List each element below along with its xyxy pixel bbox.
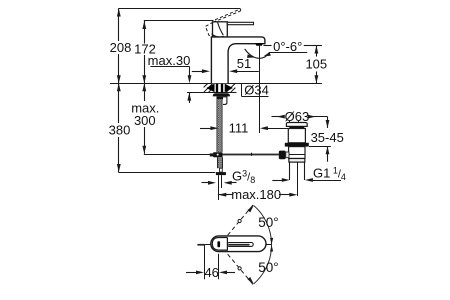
node dimension 35-45 bbox=[327, 117, 329, 128]
wire top extension line (spout max height) bbox=[118, 8, 240, 10]
plan hinge bar bbox=[217, 241, 220, 247]
wire collar extension line bbox=[309, 146, 331, 148]
arrowhead 35-45 bottom bbox=[326, 146, 330, 154]
wire supply pipe right edge bbox=[221, 175, 223, 188]
arrowhead angle arc right bbox=[264, 52, 271, 56]
arrowhead max300 bottom bbox=[142, 146, 146, 154]
handle raised position (dashed lever) bbox=[205, 9, 240, 36]
arrowhead max180 left bbox=[218, 193, 226, 197]
node dimension 111 bbox=[200, 128, 211, 130]
svg-text:208: 208 bbox=[110, 40, 132, 55]
drain bottom cap bbox=[289, 159, 305, 163]
wire 105 top tick bbox=[311, 45, 322, 47]
drain lower body bbox=[289, 147, 305, 159]
arrowhead 51 left (outside) bbox=[202, 69, 210, 73]
threaded shank (upper) bbox=[217, 99, 222, 152]
arrowhead 111 left bbox=[210, 126, 218, 130]
shank thread in deck hole bbox=[216, 83, 218, 92]
wire 46 extension right bbox=[218, 254, 220, 280]
angle swing arc at outlet bbox=[245, 49, 269, 58]
wire max.30 lower tail bbox=[189, 93, 191, 103]
flange shadow band bbox=[289, 127, 304, 129]
wire plan centerline right bbox=[254, 244, 273, 246]
svg-text:Ø34: Ø34 bbox=[244, 82, 269, 97]
svg-text:50°: 50° bbox=[258, 215, 278, 230]
arrowhead 105 bottom bbox=[315, 75, 319, 83]
svg-text:50°: 50° bbox=[258, 260, 278, 275]
aerator (spout outlet) bbox=[255, 43, 263, 46]
wire 380 bottom extension line bbox=[118, 172, 215, 174]
arrowhead max180 right bbox=[289, 193, 297, 197]
wire plan centerline left stub (rod) bbox=[197, 244, 204, 246]
arrowhead 208 bottom bbox=[117, 75, 121, 83]
horizontal pop-up rod bbox=[223, 154, 279, 156]
node label G3/8 with fitting diameter arrows bbox=[202, 182, 209, 184]
wire stream / outlet extension line bbox=[259, 46, 261, 133]
threaded shank (lower) bbox=[218, 157, 223, 168]
G3/8 supply fitting nut bbox=[216, 172, 226, 175]
handle raised position (dashed block outline) bbox=[205, 22, 217, 36]
drain collar (black band) bbox=[285, 143, 309, 147]
arrowhead Ø63 right bbox=[308, 115, 316, 119]
svg-text:51: 51 bbox=[237, 56, 251, 71]
wire plan centerline left bbox=[204, 244, 210, 246]
plan handle outer stadium bbox=[211, 236, 266, 252]
pop-up rod junction block bbox=[213, 152, 223, 157]
arrowhead 35-45 top bbox=[326, 120, 330, 128]
wire max.30 drop bbox=[189, 67, 191, 77]
arrowhead angle arc left bbox=[247, 54, 254, 58]
deck hatching right block bbox=[226, 84, 235, 93]
wire max300 reference line (thin, to rod) bbox=[144, 154, 217, 156]
wire drain centerline bbox=[297, 162, 299, 196]
svg-text:Ø63: Ø63 bbox=[285, 109, 310, 124]
arrowhead 380 top bbox=[117, 83, 121, 91]
arrowhead max.30 deck top bbox=[188, 75, 192, 83]
wire leader to 0°-6° left bbox=[264, 45, 272, 47]
wire 50° swing dashed line lower bbox=[228, 254, 247, 277]
arrowhead swing arc at centerline lower bbox=[270, 245, 273, 252]
wire 46 extension left bbox=[204, 245, 206, 280]
wire lever-top extension line bbox=[144, 20, 214, 22]
wire G3/8 arrow tail bbox=[231, 182, 236, 184]
node dimension line 208/380 (vertical x=118.8) bbox=[118, 9, 120, 42]
node dimension line 172/max.300 (vertical x=144.3) bbox=[144, 21, 146, 44]
drain neck bbox=[288, 129, 305, 143]
rod joint tick bbox=[251, 153, 253, 156]
svg-text:max.30: max.30 bbox=[148, 53, 191, 68]
mounting nut bbox=[217, 96, 226, 99]
arrowhead 172 bottom bbox=[142, 75, 146, 83]
svg-text:max.180: max.180 bbox=[231, 187, 281, 202]
wire max.30 underline bbox=[151, 66, 190, 68]
arrowhead 51 right (outside) bbox=[229, 69, 237, 73]
arrowhead 111 right bbox=[260, 126, 268, 130]
arrowhead swing line lower end bbox=[248, 277, 254, 284]
wire supply pipe left edge bbox=[218, 175, 220, 200]
deck top surface line bbox=[110, 83, 322, 85]
arrowhead G11/4 right bbox=[305, 178, 313, 182]
pop-up rod guide clip bbox=[223, 97, 227, 105]
svg-text:0°-6°: 0°-6° bbox=[273, 39, 302, 54]
node dimension Ø63 bbox=[272, 116, 285, 118]
mounting washer bbox=[213, 93, 230, 96]
wire 50° swing dashed line upper bbox=[228, 213, 247, 236]
arrowhead 46 left bbox=[196, 271, 204, 275]
plan cartridge housing bbox=[212, 238, 227, 251]
arrowhead Ø63 left bbox=[277, 115, 285, 119]
arrowhead 380 bottom bbox=[117, 164, 121, 172]
node label G1 1/4 with tailpipe diameter arrows bbox=[272, 180, 283, 182]
handle base block bbox=[213, 22, 228, 37]
arrowhead G11/4 left bbox=[282, 178, 290, 182]
node label Ø34 (shank hole) bbox=[241, 84, 243, 97]
svg-text:46: 46 bbox=[204, 265, 218, 280]
swing arc (handle rotation) bbox=[254, 206, 272, 284]
plug gap ticks bbox=[289, 121, 291, 123]
arrowhead 105 top bbox=[315, 46, 319, 54]
G3/8 nipple stem bbox=[220, 168, 223, 172]
drain flange (Ø63) bbox=[286, 123, 307, 127]
drain knob (knurled) bbox=[279, 151, 286, 160]
arrowhead G3/8 left bbox=[208, 181, 216, 185]
tailpipe edges bbox=[289, 162, 291, 180]
arrowhead swing line upper end bbox=[248, 206, 254, 213]
wire leader to 0°-6° right bbox=[304, 45, 311, 47]
svg-text:111: 111 bbox=[229, 121, 249, 136]
tilted handle front edge (solid) bbox=[218, 22, 224, 35]
arrowhead max300 top bbox=[142, 83, 146, 91]
handle rotation arc bbox=[212, 34, 225, 37]
arrowhead 46 right bbox=[219, 271, 227, 275]
wire 0°-6° underline bbox=[269, 52, 307, 54]
arrowhead 172 top bbox=[142, 21, 146, 29]
arrowhead 208 top bbox=[117, 9, 121, 17]
node dimension 51 (body depth) bbox=[192, 71, 204, 73]
plan lever line bbox=[228, 244, 250, 246]
arrowhead max.30 deck bottom bbox=[187, 93, 191, 101]
svg-text:35-45: 35-45 bbox=[311, 130, 344, 145]
lever (horizontal rest position) bbox=[227, 22, 253, 24]
deck hatching left block bbox=[204, 84, 215, 93]
svg-text:380: 380 bbox=[109, 123, 131, 138]
faucet body outline bbox=[211, 37, 265, 83]
svg-text:105: 105 bbox=[305, 57, 327, 72]
arrowhead swing arc at centerline upper bbox=[270, 238, 273, 245]
deck bottom surface line bbox=[187, 92, 237, 94]
arrowhead G3/8 right bbox=[224, 181, 232, 185]
wire G1 1/4 underline bbox=[312, 180, 341, 182]
plan lever slot bbox=[227, 243, 253, 247]
svg-text:300: 300 bbox=[134, 113, 156, 128]
